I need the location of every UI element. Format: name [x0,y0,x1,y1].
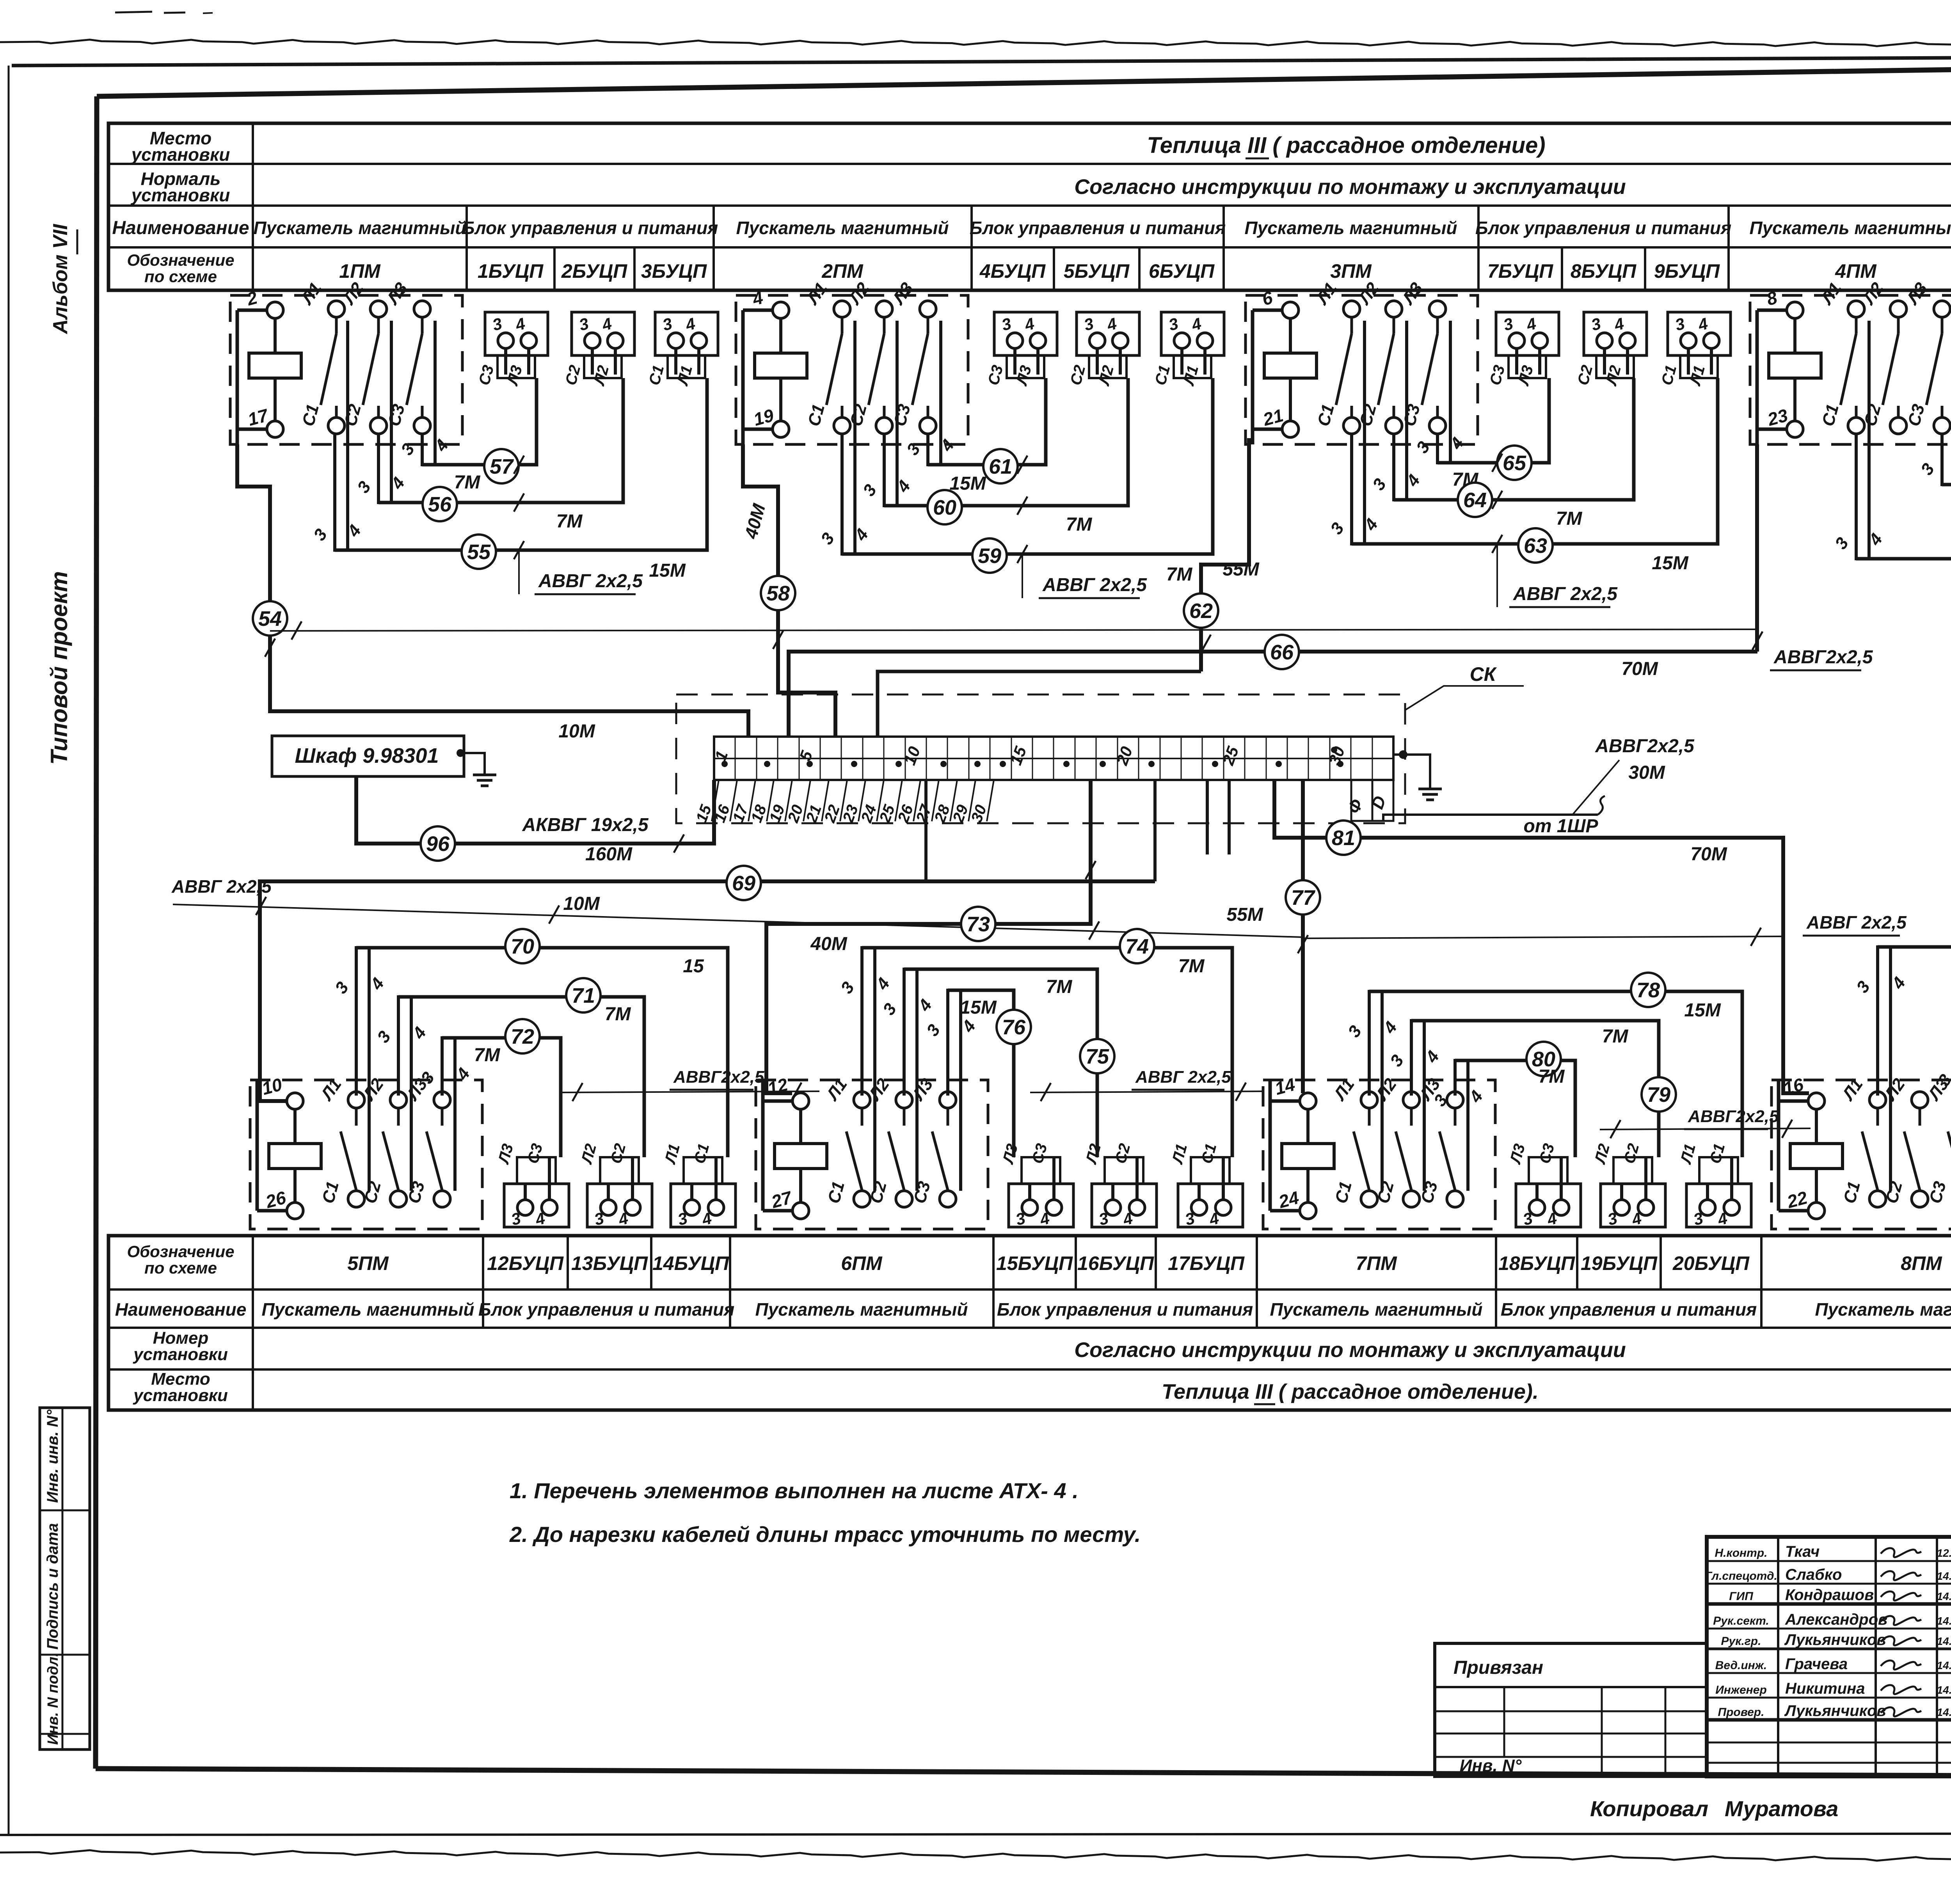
svg-text:7БУЦП: 7БУЦП [1487,260,1553,282]
contact pole Л1/С1 of 1ПМ [297,279,345,434]
svg-text:15М: 15М [649,560,686,581]
svg-text:Пускатель магнитный: Пускатель магнитный [736,218,949,238]
contact pole Л1/С1 of 4ПМ [1817,279,1864,434]
node 63 (cable number) [1518,528,1553,563]
wire pair 3/4 [1917,321,1951,486]
svg-text:Пускатель магнитный: Пускатель магнитный [254,218,466,238]
wire pair 3/4 [1386,1019,1443,1191]
svg-text:СК: СК [1470,663,1497,685]
svg-text:7М: 7М [605,1004,631,1025]
svg-text:20БУЦП: 20БУЦП [1672,1252,1750,1274]
svg-text:55: 55 [467,540,491,564]
thin cable line group7 [1600,1128,1811,1130]
contact pole Л1/С1 of 3ПМ [1312,279,1360,434]
svg-text:14.01.86: 14.01.86 [1937,1684,1951,1696]
svg-text:2. До нарезки кабелей длины: 2. До нарезки кабелей длины трасс уточни… [509,1522,1141,1547]
wire pair 3/4 [397,321,452,466]
control block 4БУЦП [985,312,1057,388]
svg-text:Провер.: Провер. [1718,1706,1764,1719]
node 62 (cable number) [1184,593,1218,628]
contact pole Л3/С3 of 5ПМ [403,1075,450,1207]
svg-text:установки: установки [131,185,230,205]
node 59 (cable number) [972,538,1007,573]
title block outer [1707,1537,1951,1776]
node 79 (cable number) [1642,1077,1676,1112]
wire pair 3/4 [817,321,872,556]
svg-text:14.01.86: 14.01.86 [1937,1659,1951,1671]
coil of 5ПМ [257,1074,321,1219]
cable label АВВГ 2х2,5 [1803,912,1907,936]
control block 5БУЦП [1067,312,1139,388]
svg-text:1БУЦП: 1БУЦП [478,260,544,282]
connection box СК (dashed) [676,694,1405,823]
svg-text:3БУЦП: 3БУЦП [641,260,707,282]
svg-text:9БУЦП: 9БУЦП [1654,260,1720,282]
contact pole Л2/С2 of 1ПМ [339,279,387,434]
svg-text:8ПМ: 8ПМ [1901,1252,1942,1274]
svg-text:15М: 15М [949,473,986,494]
magnetic starter 4ПМ [1750,295,1951,444]
strip lower tails 15-30 [712,780,719,821]
node 81 (cable number) [1326,821,1361,855]
svg-text:Гл.спецотд.: Гл.спецотд. [1705,1570,1777,1583]
svg-text:14БУЦП: 14БУЦП [652,1252,729,1274]
contact pole Л1/С1 of 6ПМ [823,1075,870,1207]
wire pair 3/4 [923,989,979,1191]
svg-text:Грачева: Грачева [1785,1655,1848,1673]
svg-text:55М: 55М [1222,559,1259,580]
node 57 (cable number) [484,449,519,483]
svg-text:79: 79 [1647,1083,1670,1107]
wire pair 3/4 [417,1036,474,1191]
svg-text:6БУЦП: 6БУЦП [1149,260,1215,282]
node 80 (cable number) [1526,1042,1561,1076]
svg-text:63: 63 [1524,534,1547,558]
wire pair 3/4 [1344,990,1401,1191]
svg-text:61: 61 [989,455,1012,478]
wire pair 3/4 [1327,321,1382,545]
svg-text:15М: 15М [1684,1000,1721,1021]
svg-text:АВВГ 2х2,5: АВВГ 2х2,5 [171,876,272,897]
contact pole Л2/С2 of 8ПМ [1880,1075,1928,1207]
svg-text:18БУЦП: 18БУЦП [1498,1252,1575,1274]
wire from 2ПМ coil through node 58 to terminal strip (40М) [743,444,778,576]
svg-text:74: 74 [1125,935,1149,958]
svg-text:6ПМ: 6ПМ [841,1252,883,1274]
svg-text:АВВГ 2х2,5: АВВГ 2х2,5 [1042,575,1147,595]
svg-text:10М: 10М [563,893,600,914]
svg-text:Блок управления и питания: Блок управления и питания [997,1299,1253,1320]
svg-text:2БУЦП: 2БУЦП [561,260,627,282]
svg-text:Рук.гр.: Рук.гр. [1721,1635,1761,1648]
svg-text:Инженер: Инженер [1715,1684,1767,1696]
svg-text:12БУЦП: 12БУЦП [487,1252,564,1274]
node 78 (cable number) [1631,973,1665,1007]
svg-text:АВВГ 2х2,5: АВВГ 2х2,5 [1513,584,1618,604]
svg-text:75: 75 [1086,1045,1109,1068]
control block 13БУЦП [578,1142,652,1229]
svg-text:Подпись и дата: Подпись и дата [44,1523,61,1650]
thin trunk wire right (АВВГ 2х2,5) [1303,936,1781,938]
wire pair 3/4 [310,321,365,552]
wire pair 3/4 [331,946,388,1191]
svg-text:64: 64 [1463,488,1487,512]
svg-text:65: 65 [1503,451,1526,475]
contact pole Л1/С1 of 7ПМ [1330,1075,1377,1207]
svg-text:Копировал: Копировал [1590,1796,1708,1821]
wire pair 3/4 [1413,321,1468,464]
svg-text:1. Перечень элементов выполн: 1. Перечень элементов выполнен на листе … [510,1478,1079,1503]
svg-text:14.01.86: 14.01.86 [1937,1706,1951,1718]
long thin trunk wire (АВВГ) from 54 to 4ПМ group [270,629,1757,631]
svg-text:Альбом VII: Альбом VII [49,224,72,335]
contact pole Л3/С3 of 2ПМ [888,279,936,434]
svg-text:Согласно инструкции по монта: Согласно инструкции по монтажу и эксплуа… [1074,175,1626,199]
wire pair 3/4 [1369,321,1424,501]
svg-text:Вед.инж.: Вед.инж. [1715,1659,1767,1672]
svg-text:55М: 55М [1226,904,1263,925]
contact pole Л3/С3 of 8ПМ [1924,1075,1951,1207]
magnetic starter 7ПМ [1263,1080,1495,1229]
magnetic starter 3ПМ [1246,295,1478,444]
contact pole Л2/С2 of 6ПМ [865,1075,912,1207]
svg-text:Рук.сект.: Рук.сект. [1713,1614,1769,1627]
wire pair 3/4 [1430,1059,1487,1191]
strip drop verticals [1153,781,1157,881]
svg-text:73: 73 [967,913,990,936]
node 66 (cable number) [1265,635,1299,669]
svg-text:30М: 30М [1628,762,1665,783]
drawing frame bottom edge [96,1769,1951,1778]
svg-text:69: 69 [732,872,755,895]
svg-text:13БУЦП: 13БУЦП [571,1252,648,1274]
svg-text:Наименование: Наименование [115,1299,247,1320]
svg-text:Блок управления и питания: Блок управления и питания [1501,1299,1757,1320]
control block 15БУЦП [999,1142,1073,1229]
wire pair 3/4 [879,968,936,1191]
svg-text:АВВГ 2х2,5: АВВГ 2х2,5 [1806,912,1907,932]
svg-text:Инв. инв. N°: Инв. инв. N° [44,1409,61,1503]
svg-text:15: 15 [683,956,704,977]
svg-text:15М: 15М [960,997,997,1018]
svg-text:10М: 10М [558,721,595,742]
svg-text:7ПМ: 7ПМ [1356,1252,1397,1274]
node 58 (cable number) [761,576,795,610]
magnetic starter 8ПМ [1772,1080,1951,1229]
svg-text:7М: 7М [474,1045,501,1066]
svg-text:Блок управления и питания: Блок управления и питания [462,218,718,238]
coil of 7ПМ [1270,1074,1334,1219]
cable label АВВГ 2х2,5 [1509,584,1618,607]
svg-text:81: 81 [1332,826,1355,850]
cabinet ground [457,749,464,757]
svg-text:Блок управления и питания: Блок управления и питания [970,218,1226,238]
svg-text:Пускатель магнитный: Пускатель магнитный [1815,1299,1951,1320]
coil of 4ПМ [1757,287,1821,444]
svg-text:Лукьянчиков: Лукьянчиков [1784,1631,1886,1648]
contact pole Л2/С2 of 5ПМ [359,1075,407,1207]
bottom boundary rule [0,1833,1951,1835]
node 75 (cable number) [1080,1039,1114,1073]
cable label АВВГ 2х2,5 [1132,1067,1231,1090]
control block 9БУЦП [1658,312,1731,388]
node 60 (cable number) [928,490,962,524]
wire pair 3/4 [859,321,914,507]
control block 8БУЦП [1574,312,1647,388]
svg-text:Согласно инструкции по монт: Согласно инструкции по монтажу и эксплуа… [1074,1338,1626,1362]
svg-text:Теплица III ( рассадное о: Теплица III ( рассадное отделение). [1162,1380,1539,1403]
wire to 1ШР (АВВГ2х2,5 30М) [1383,815,1598,821]
control block 6БУЦП [1152,312,1224,388]
svg-text:12.01.86: 12.01.86 [1937,1547,1951,1559]
node 70 (cable number) [505,929,540,963]
svg-text:Инв. N подл.: Инв. N подл. [45,1653,61,1745]
svg-text:Н.контр.: Н.контр. [1715,1547,1768,1559]
svg-text:71: 71 [572,984,595,1007]
magnetic starter 6ПМ [756,1080,988,1229]
svg-text:АВВГ 2х2,5: АВВГ 2х2,5 [538,571,643,591]
svg-text:5ПМ: 5ПМ [347,1252,389,1274]
cable label АВВГ 2х2,5 [1039,575,1147,598]
svg-text:19БУЦП: 19БУЦП [1581,1252,1658,1274]
svg-text:5БУЦП: 5БУЦП [1064,260,1130,282]
svg-text:4БУЦП: 4БУЦП [979,260,1046,282]
contact pole Л2/С2 of 4ПМ [1859,279,1907,434]
left thin sheet boundary [8,66,10,1835]
svg-text:57: 57 [490,455,514,478]
svg-text:15БУЦП: 15БУЦП [996,1252,1073,1274]
contact pole Л3/С3 of 1ПМ [383,279,430,434]
svg-text:Пускатель магнитный: Пускатель магнитный [1750,218,1951,238]
drawing frame top edge [97,62,1951,96]
svg-text:Шкаф 9.98301: Шкаф 9.98301 [295,744,439,767]
contact pole Л3/С3 of 3ПМ [1398,279,1446,434]
below strip stub wires [1206,781,1209,854]
svg-text:Александров: Александров [1785,1611,1887,1628]
control block 16БУЦП [1082,1142,1157,1229]
svg-text:14.01.86: 14.01.86 [1937,1590,1951,1602]
control block 18БУЦП [1507,1142,1581,1229]
svg-text:Блок управления и питания: Блок управления и питания [1475,218,1731,238]
svg-text:1ПМ: 1ПМ [339,260,381,282]
svg-text:7М: 7М [1556,508,1583,529]
cable label АВВГ 2х2,5 [535,571,643,594]
contact pole Л2/С2 of 7ПМ [1372,1075,1420,1207]
contact pole Л2/С2 of 2ПМ [845,279,892,434]
stray pencil dashes top-left [115,12,152,12]
strip staple wire [878,671,1201,737]
svg-text:76: 76 [1002,1016,1026,1039]
magnetic starter 1ПМ [230,295,462,444]
contact pole Л1/С1 of 2ПМ [803,279,850,434]
cable label АВВГ2х2,5 [1770,647,1873,670]
contact pole Л3/С3 of 6ПМ [908,1075,956,1207]
svg-text:56: 56 [428,493,452,516]
contact pole Л2/С2 of 3ПМ [1354,279,1402,434]
node 69 (cable number) [727,866,761,900]
wire from 1ПМ coil down to node 54 [237,444,270,601]
thin cable line group5 [561,1091,819,1092]
svg-text:62: 62 [1189,599,1213,623]
svg-text:2ПМ: 2ПМ [821,260,864,282]
svg-text:96: 96 [426,832,450,856]
coil of 1ПМ [237,287,301,444]
svg-text:по схеме: по схеме [144,1259,217,1277]
top table outer border [108,123,1951,290]
wire 73 (40М) strip to 6ПМ [995,781,1091,924]
node 56 (cable number) [423,487,457,521]
terminal strip [714,737,1393,780]
svg-text:58: 58 [766,582,790,605]
svg-text:14.01.86: 14.01.86 [1937,1570,1951,1582]
svg-text:8БУЦП: 8БУЦП [1571,260,1636,282]
cabinet Шкаф 9.98301 [272,736,464,776]
frame column: inventory cells [40,1408,90,1749]
svg-text:70М: 70М [1621,659,1658,679]
svg-text:Теплица III ( рассадное отдел: Теплица III ( рассадное отделение) [1147,133,1545,158]
bottom table outer border [108,1236,1951,1410]
svg-text:Обозначение: Обозначение [127,251,234,269]
node 73 (cable number) [961,907,995,941]
svg-text:АВВГ2х2,5: АВВГ2х2,5 [1773,647,1873,668]
drawing frame left edge [96,96,97,1769]
node 72 (cable number) [505,1019,540,1053]
wire pair 3/4 [354,321,409,504]
magnetic starter 2ПМ [736,295,968,444]
svg-text:Кондрашов: Кондрашов [1785,1586,1874,1604]
contact pole Л1/С1 of 8ПМ [1838,1075,1886,1207]
svg-text:Никитина: Никитина [1785,1680,1865,1697]
node 55 (cable number) [462,535,496,569]
svg-text:Пускатель магнитный: Пускатель магнитный [262,1299,474,1320]
svg-text:Муратова: Муратова [1725,1796,1838,1821]
svg-text:по схеме: по схеме [144,267,217,286]
wire pair 3/4 [837,946,894,1191]
node 61 (cable number) [983,449,1018,483]
svg-text:Лукьянчиков: Лукьянчиков [1784,1702,1886,1719]
wire 69 (10М) to 5ПМ [260,881,1155,1101]
thin cable line group6 [1030,1091,1264,1092]
top torn paper edge line [0,40,1951,47]
svg-text:14.01.86: 14.01.86 [1937,1615,1951,1627]
control block 19БУЦП [1591,1142,1665,1229]
wire pair 3/4 [373,995,430,1191]
thin trunk cable line (АВВГ 2х2,5) [173,904,1303,937]
svg-text:Ткач: Ткач [1785,1543,1820,1560]
magnetic starter 5ПМ [250,1080,482,1229]
svg-text:7М: 7М [1046,977,1073,997]
cable label АВВГ2х2,5 [1684,1107,1779,1129]
node 65 (cable number) [1497,446,1532,480]
svg-text:66: 66 [1270,641,1294,664]
svg-text:Обозначение: Обозначение [127,1242,234,1261]
bottom torn paper edge line [0,1850,1951,1863]
cable label АВВГ 2х2,5 [171,876,272,897]
wire 77 (55М) strip to 7ПМ [1301,781,1305,880]
node 96 (cable number) [421,826,455,861]
svg-text:установки: установки [133,1345,228,1364]
svg-text:7М: 7М [556,511,583,532]
svg-text:14.01.86: 14.01.86 [1937,1635,1951,1647]
node 54 (cable number) [253,601,287,636]
svg-text:7М: 7М [1539,1066,1565,1087]
svg-text:АВВГ2х2,5: АВВГ2х2,5 [673,1067,764,1087]
strip right ground [1399,750,1407,759]
svg-text:7М: 7М [1066,514,1093,535]
control block 2БУЦП [562,312,634,388]
svg-text:160М: 160М [585,844,633,865]
coil of 6ПМ [763,1074,827,1219]
node 64 (cable number) [1458,483,1492,517]
control block 12БУЦП [495,1142,569,1229]
svg-text:77: 77 [1291,886,1316,909]
wire pair 3/4 [1853,945,1909,1191]
wire from 3ПМ coil (55М) through node 62 to strip [1201,438,1249,593]
node 71 (cable number) [566,978,601,1012]
svg-text:3ПМ: 3ПМ [1330,260,1372,282]
contact pole Л3/С3 of 4ПМ [1903,279,1950,434]
СК label [1405,686,1524,710]
wire pair 3/4 [1831,321,1886,560]
svg-text:Инв. N°: Инв. N° [1460,1756,1522,1775]
svg-text:54: 54 [258,607,282,631]
svg-text:АВВГ2х2,5: АВВГ2х2,5 [1595,736,1695,757]
cable label АВВГ2х2,5 [670,1067,764,1090]
svg-text:17БУЦП: 17БУЦП [1168,1252,1245,1274]
control block 17БУЦП [1169,1142,1243,1229]
control block 3БУЦП [646,312,718,388]
svg-text:АВВГ 2х2,5: АВВГ 2х2,5 [1135,1067,1231,1087]
svg-text:Пускатель магнитный: Пускатель магнитный [755,1299,968,1320]
svg-text:Пускатель магнитный: Пускатель магнитный [1245,218,1457,238]
svg-text:АКВВГ 19х2,5: АКВВГ 19х2,5 [522,815,649,835]
4ПМ coil drop wire [1755,444,1759,652]
svg-text:установки: установки [131,144,230,165]
coil of 3ПМ [1253,287,1317,444]
node 77 (cable number) [1286,880,1320,915]
svg-text:от 1ШР: от 1ШР [1523,816,1598,837]
svg-text:Типовой проект: Типовой проект [46,571,72,765]
svg-text:Блок управления и питания: Блок управления и питания [478,1299,734,1320]
svg-text:4ПМ: 4ПМ [1835,260,1877,282]
contact pole Л1/С1 of 5ПМ [317,1075,364,1207]
wire 66 (70М) from strip to 4ПМ drop [789,652,1264,737]
coil of 2ПМ [743,287,807,444]
8ПМ feed drop [1783,921,1809,1093]
control block 14БУЦП [661,1142,736,1229]
svg-text:установки: установки [133,1386,228,1405]
node 76 (cable number) [997,1010,1031,1044]
svg-text:АВВГ2х2,5: АВВГ2х2,5 [1688,1107,1779,1126]
svg-text:7М: 7М [1166,564,1193,585]
binding table (Привязан) [1435,1643,1707,1776]
svg-text:59: 59 [978,544,1001,568]
svg-text:Наименование: Наименование [112,218,249,238]
svg-text:70: 70 [511,935,534,958]
svg-text:70М: 70М [1690,844,1727,865]
strip cells Ф and D [1351,780,1372,821]
svg-text:Слабко: Слабко [1785,1566,1842,1583]
svg-text:78: 78 [1636,979,1660,1002]
coil of 8ПМ [1779,1074,1843,1219]
wire 96 (АКВВГ 19х2,5 160М) cabinet to strip [356,776,420,844]
top boundary rule [12,56,1951,66]
control block 20БУЦП [1677,1142,1751,1229]
wire pair 3/4 [903,321,958,466]
svg-text:16БУЦП: 16БУЦП [1077,1252,1154,1274]
control block 1БУЦП [476,312,548,388]
svg-text:72: 72 [511,1025,534,1048]
